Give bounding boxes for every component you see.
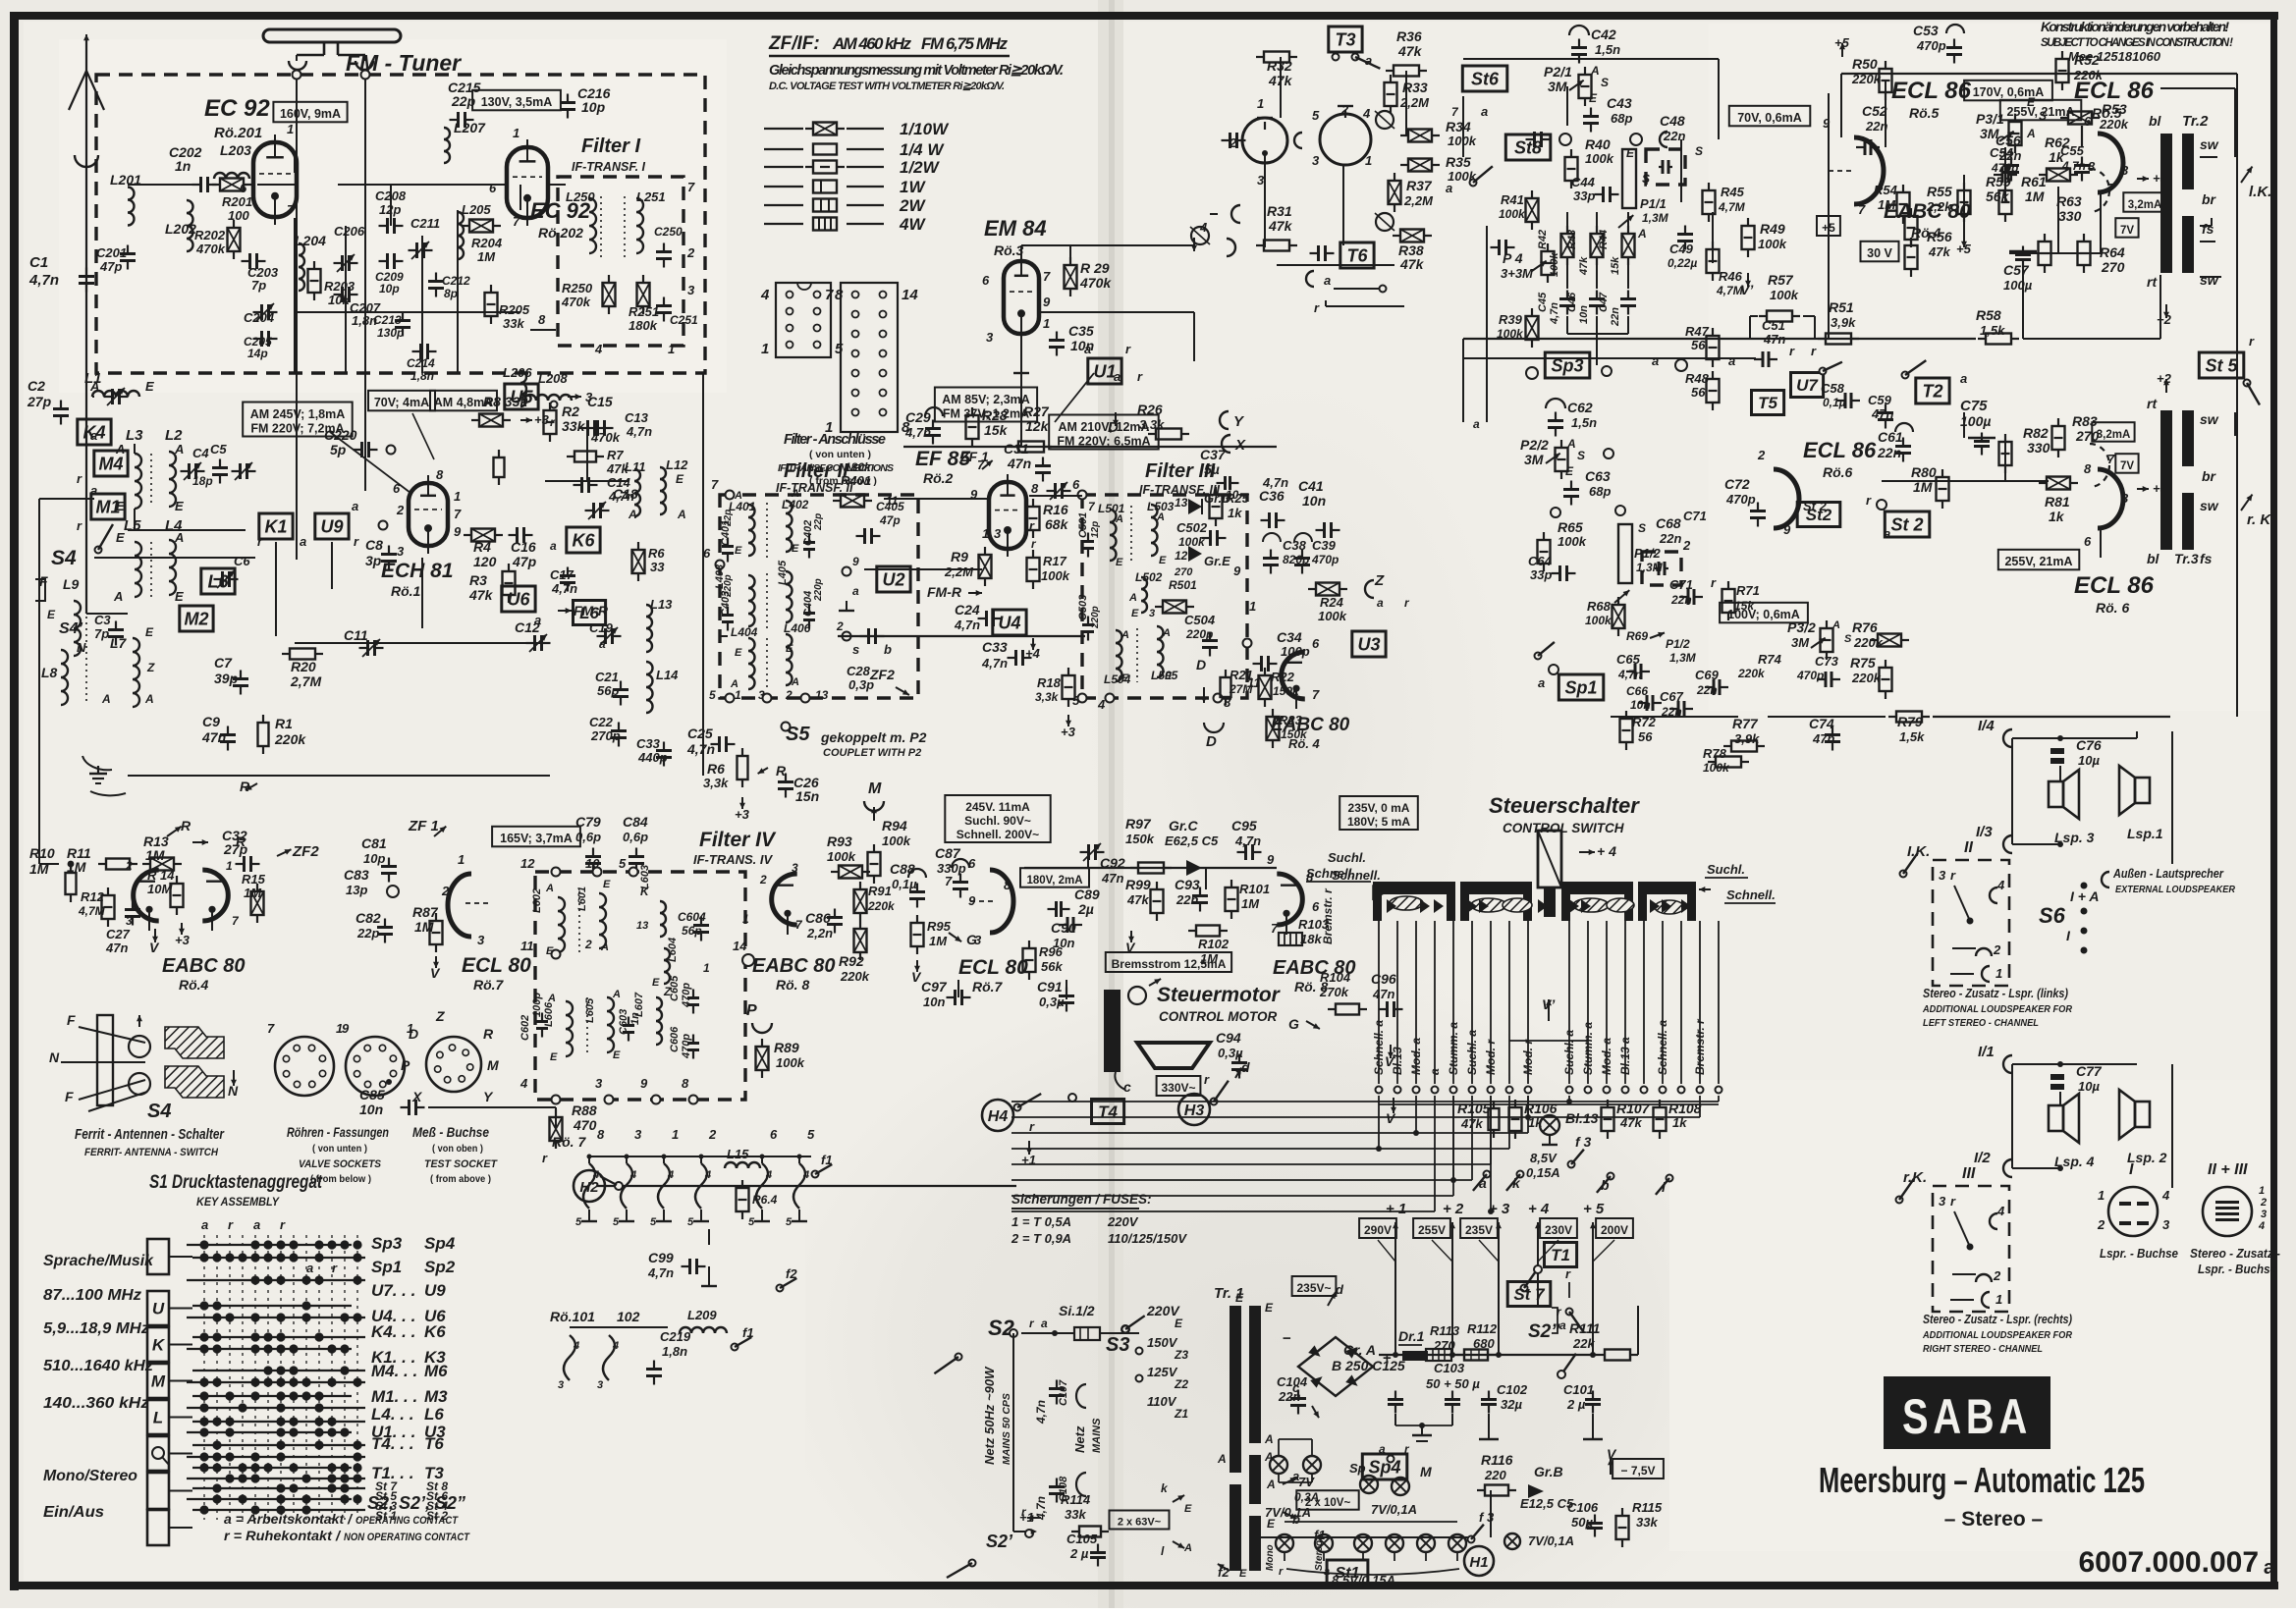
svg-text:a: a bbox=[90, 428, 97, 443]
svg-text:C12: C12 bbox=[515, 619, 540, 635]
svg-text:C107: C107 bbox=[1058, 1379, 1069, 1406]
svg-text:R88: R88 bbox=[572, 1102, 597, 1118]
svg-text:L14: L14 bbox=[656, 668, 679, 682]
svg-text:C73: C73 bbox=[1815, 654, 1839, 669]
svg-text:C52: C52 bbox=[1862, 103, 1887, 119]
svg-text:1,8n: 1,8n bbox=[662, 1344, 687, 1359]
svg-text:Sp4: Sp4 bbox=[424, 1234, 456, 1253]
svg-text:R103: R103 bbox=[1298, 917, 1330, 932]
svg-text:3: 3 bbox=[477, 933, 485, 947]
svg-text:Rö.202: Rö.202 bbox=[538, 225, 583, 241]
svg-text:T1: T1 bbox=[1551, 1246, 1570, 1264]
svg-text:R92: R92 bbox=[839, 953, 864, 969]
svg-text:E: E bbox=[47, 608, 56, 621]
svg-text:a: a bbox=[1379, 1442, 1386, 1456]
svg-text:L: L bbox=[153, 1409, 163, 1427]
svg-text:8p: 8p bbox=[444, 287, 458, 300]
svg-text:St 2: St 2 bbox=[1890, 515, 1923, 535]
svg-text:4,7n: 4,7n bbox=[647, 1265, 674, 1280]
svg-text:Si.1/2: Si.1/2 bbox=[1059, 1303, 1095, 1318]
svg-text:C69: C69 bbox=[1695, 668, 1720, 682]
svg-text:A: A bbox=[1637, 227, 1647, 241]
svg-text:1,3M: 1,3M bbox=[1642, 211, 1669, 225]
svg-text:Rö.3: Rö.3 bbox=[994, 242, 1024, 258]
svg-text:12: 12 bbox=[520, 856, 535, 871]
svg-text:7V/0,1A: 7V/0,1A bbox=[1265, 1505, 1311, 1520]
svg-text:235V~: 235V~ bbox=[1296, 1281, 1331, 1295]
svg-text:M: M bbox=[868, 780, 882, 797]
svg-text:R102: R102 bbox=[1198, 937, 1230, 951]
svg-text:8: 8 bbox=[538, 312, 546, 327]
svg-text:M4. . .: M4. . . bbox=[371, 1362, 417, 1380]
svg-text:R202: R202 bbox=[194, 228, 226, 242]
svg-text:L4. . .: L4. . . bbox=[371, 1405, 413, 1424]
svg-text:7: 7 bbox=[1043, 269, 1051, 284]
svg-text:100k: 100k bbox=[1770, 288, 1799, 302]
svg-text:+3: +3 bbox=[534, 412, 550, 427]
svg-text:a: a bbox=[1481, 104, 1488, 119]
svg-text:+: + bbox=[1383, 1350, 1392, 1367]
svg-text:2: 2 bbox=[708, 1127, 717, 1142]
svg-text:8,5V/0,15A: 8,5V/0,15A bbox=[1332, 1573, 1395, 1587]
svg-text:1n: 1n bbox=[175, 158, 191, 174]
svg-text:510...1640 kHz: 510...1640 kHz bbox=[43, 1358, 153, 1374]
svg-text:E: E bbox=[116, 499, 125, 513]
svg-text:F: F bbox=[39, 573, 48, 589]
svg-text:A: A bbox=[89, 379, 99, 394]
svg-text:C25: C25 bbox=[687, 726, 713, 741]
svg-text:S: S bbox=[1844, 633, 1852, 645]
svg-text:C9: C9 bbox=[202, 714, 220, 729]
svg-text:22p: 22p bbox=[723, 510, 734, 527]
svg-text:255V, 21mA: 255V, 21mA bbox=[2006, 105, 2074, 119]
svg-text:C606: C606 bbox=[669, 1026, 681, 1052]
svg-text:E: E bbox=[175, 499, 184, 513]
svg-text:470: 470 bbox=[573, 1117, 597, 1133]
svg-text:9: 9 bbox=[852, 555, 859, 568]
svg-text:C99: C99 bbox=[648, 1250, 674, 1265]
svg-text:I/2: I/2 bbox=[1974, 1150, 1991, 1166]
svg-text:R49: R49 bbox=[1760, 221, 1785, 237]
svg-text:Rö.4: Rö.4 bbox=[179, 977, 209, 993]
svg-text:L405: L405 bbox=[777, 560, 789, 585]
svg-text:160V, 9mA: 160V, 9mA bbox=[280, 107, 341, 121]
svg-text:M: M bbox=[487, 1057, 499, 1073]
svg-text:270: 270 bbox=[2101, 259, 2125, 275]
svg-text:3: 3 bbox=[986, 330, 994, 345]
svg-text:5: 5 bbox=[650, 1216, 657, 1228]
svg-text:Lsp. 3: Lsp. 3 bbox=[2054, 830, 2095, 845]
svg-text:Meß - Buchse: Meß - Buchse bbox=[412, 1124, 489, 1140]
svg-text:70V, 0,6mA: 70V, 0,6mA bbox=[1737, 111, 1802, 125]
svg-text:4: 4 bbox=[594, 342, 603, 356]
svg-text:4: 4 bbox=[573, 1340, 579, 1352]
svg-text:ECL 86: ECL 86 bbox=[2074, 572, 2155, 599]
svg-text:4,7n: 4,7n bbox=[626, 424, 652, 439]
svg-text:St8: St8 bbox=[1514, 138, 1542, 158]
svg-text:0,6p: 0,6p bbox=[623, 830, 648, 844]
svg-text:MAINS: MAINS bbox=[1091, 1418, 1103, 1453]
svg-text:– Stereo –: – Stereo – bbox=[1944, 1508, 2044, 1531]
svg-text:R101: R101 bbox=[1239, 882, 1270, 896]
svg-text:a: a bbox=[852, 584, 859, 598]
svg-text:R43: R43 bbox=[1566, 230, 1578, 249]
svg-text:E: E bbox=[792, 543, 799, 555]
svg-text:St 7: St 7 bbox=[1513, 1285, 1546, 1304]
svg-text:K6: K6 bbox=[424, 1322, 446, 1341]
svg-text:Lsp.1: Lsp.1 bbox=[2127, 826, 2163, 841]
svg-text:AM 85V; 2,3mA: AM 85V; 2,3mA bbox=[942, 393, 1030, 406]
svg-text:33p: 33p bbox=[1573, 188, 1595, 203]
svg-text:3: 3 bbox=[974, 933, 982, 947]
svg-text:Sprache/Musik: Sprache/Musik bbox=[43, 1253, 154, 1269]
svg-text:K: K bbox=[152, 1336, 166, 1355]
svg-text:1M: 1M bbox=[477, 249, 496, 264]
svg-text:3,3k: 3,3k bbox=[703, 776, 729, 790]
svg-text:10n: 10n bbox=[1070, 338, 1094, 353]
svg-text:+ 4: + 4 bbox=[1597, 843, 1616, 859]
svg-text:R50: R50 bbox=[1852, 56, 1878, 72]
svg-text:FM 6,75 MHz: FM 6,75 MHz bbox=[921, 34, 1009, 53]
svg-text:4W: 4W bbox=[899, 215, 926, 234]
svg-text:A: A bbox=[1156, 511, 1165, 523]
svg-text:100k: 100k bbox=[1585, 614, 1613, 627]
svg-text:L5: L5 bbox=[124, 517, 141, 534]
svg-text:R205: R205 bbox=[499, 302, 530, 317]
svg-text:sw: sw bbox=[2200, 136, 2219, 152]
svg-text:T6: T6 bbox=[1346, 246, 1368, 266]
svg-text:L402: L402 bbox=[782, 498, 809, 511]
svg-text:U: U bbox=[152, 1300, 165, 1318]
svg-text:Mod. a: Mod. a bbox=[1600, 1038, 1613, 1075]
svg-text:a = Arbeitskontakt /: a = Arbeitskontakt / bbox=[224, 1511, 354, 1527]
svg-text:2,7M: 2,7M bbox=[290, 673, 321, 689]
svg-text:7: 7 bbox=[513, 214, 520, 229]
svg-text:3: 3 bbox=[2121, 491, 2129, 506]
svg-text:4: 4 bbox=[519, 1076, 528, 1091]
svg-text:3: 3 bbox=[2162, 1217, 2170, 1232]
svg-text:A: A bbox=[791, 488, 799, 500]
svg-text:Suchl.: Suchl. bbox=[1707, 862, 1745, 877]
svg-text:47p: 47p bbox=[879, 513, 901, 527]
svg-text:C213: C213 bbox=[373, 313, 402, 327]
svg-text:C102: C102 bbox=[1497, 1382, 1528, 1397]
svg-text:L605: L605 bbox=[584, 997, 596, 1023]
svg-text:R107: R107 bbox=[1616, 1101, 1651, 1116]
svg-text:R91: R91 bbox=[868, 884, 892, 898]
svg-text:Filter III: Filter III bbox=[1145, 460, 1216, 482]
svg-text:470p: 470p bbox=[1916, 38, 1946, 53]
svg-text:R115: R115 bbox=[1632, 1500, 1663, 1515]
svg-text:C63: C63 bbox=[1585, 468, 1611, 484]
svg-text:C201: C201 bbox=[96, 245, 127, 260]
svg-text:L13: L13 bbox=[650, 597, 673, 612]
svg-text:1: 1 bbox=[458, 852, 465, 867]
svg-text:130V, 3,5mA: 130V, 3,5mA bbox=[481, 95, 553, 109]
svg-text:S3: S3 bbox=[1106, 1334, 1129, 1356]
svg-text:1M: 1M bbox=[2025, 188, 2045, 204]
svg-text:100k: 100k bbox=[1549, 252, 1560, 277]
svg-text:ECL 80: ECL 80 bbox=[462, 954, 531, 977]
svg-text:Gleichspannungsmessung mit V: Gleichspannungsmessung mit Voltmeter Ri≧… bbox=[769, 63, 1064, 79]
svg-text:C84: C84 bbox=[623, 814, 648, 830]
svg-text:rt: rt bbox=[2147, 274, 2158, 290]
svg-text:470k: 470k bbox=[195, 242, 226, 256]
svg-text:R77: R77 bbox=[1732, 716, 1759, 731]
svg-text:22k: 22k bbox=[1572, 1336, 1595, 1351]
svg-text:47k: 47k bbox=[1460, 1116, 1483, 1131]
svg-text:bl: bl bbox=[2149, 113, 2162, 129]
svg-text:Mod. r: Mod. r bbox=[1484, 1039, 1498, 1075]
svg-text:47n: 47n bbox=[1101, 871, 1123, 886]
svg-text:D: D bbox=[1196, 657, 1206, 672]
svg-text:E: E bbox=[735, 545, 742, 557]
svg-text:L607: L607 bbox=[633, 992, 645, 1017]
svg-text:1: 1 bbox=[1257, 96, 1264, 111]
svg-text:C95: C95 bbox=[1231, 818, 1257, 833]
svg-text:C206: C206 bbox=[334, 224, 365, 239]
svg-text:R1: R1 bbox=[275, 716, 293, 731]
svg-text:R65: R65 bbox=[1558, 519, 1583, 535]
svg-text:Mod. a: Mod. a bbox=[1409, 1038, 1423, 1075]
svg-text:4: 4 bbox=[1996, 878, 2005, 892]
svg-text:a: a bbox=[599, 637, 606, 651]
svg-text:4,7n: 4,7n bbox=[1262, 475, 1288, 490]
svg-text:+2: +2 bbox=[2157, 371, 2172, 386]
svg-text:+3: +3 bbox=[735, 807, 750, 822]
svg-text:100k: 100k bbox=[1448, 134, 1477, 148]
svg-text:a: a bbox=[1446, 181, 1452, 195]
svg-text:+3: +3 bbox=[1061, 725, 1076, 739]
svg-text:Schnell. a: Schnell. a bbox=[1372, 1020, 1386, 1075]
svg-text:M6: M6 bbox=[424, 1362, 448, 1380]
svg-text:3M: 3M bbox=[1524, 452, 1544, 467]
svg-text:C71: C71 bbox=[1683, 509, 1707, 523]
svg-text:L6: L6 bbox=[424, 1405, 444, 1424]
svg-text:a: a bbox=[253, 1217, 260, 1232]
svg-text:R97: R97 bbox=[1125, 816, 1152, 832]
svg-text:150k: 150k bbox=[1125, 832, 1155, 846]
svg-text:56: 56 bbox=[1638, 729, 1653, 744]
svg-text:4: 4 bbox=[704, 1169, 711, 1181]
svg-text:5: 5 bbox=[687, 1216, 694, 1228]
svg-text:C1: C1 bbox=[29, 254, 48, 271]
svg-text:Bremstr. r: Bremstr. r bbox=[1321, 887, 1335, 944]
svg-text:C64: C64 bbox=[1528, 554, 1553, 568]
svg-text:C35: C35 bbox=[1068, 323, 1094, 339]
svg-text:+ 3: + 3 bbox=[1489, 1201, 1510, 1217]
svg-text:C214: C214 bbox=[407, 356, 435, 370]
svg-text:1k: 1k bbox=[1228, 506, 1242, 520]
svg-text:7: 7 bbox=[1858, 202, 1866, 217]
svg-text:3: 3 bbox=[1312, 153, 1320, 168]
svg-text:S2’: S2’ bbox=[986, 1532, 1013, 1551]
svg-text:Stereo - Zusatz -: Stereo - Zusatz - bbox=[2190, 1246, 2280, 1261]
svg-text:E: E bbox=[786, 643, 793, 655]
svg-text:Bremsstrom 12,5mA: Bremsstrom 12,5mA bbox=[1112, 957, 1227, 971]
svg-text:R3: R3 bbox=[469, 572, 487, 588]
svg-text:E: E bbox=[550, 1051, 558, 1063]
svg-text:L208: L208 bbox=[538, 371, 568, 386]
svg-text:( von unten ): ( von unten ) bbox=[809, 449, 871, 460]
svg-text:9: 9 bbox=[342, 1021, 350, 1036]
svg-text:L9: L9 bbox=[63, 576, 80, 592]
svg-text:E: E bbox=[175, 589, 184, 604]
svg-text:1k: 1k bbox=[2049, 149, 2065, 165]
svg-text:470p: 470p bbox=[1725, 492, 1756, 507]
svg-text:R46: R46 bbox=[1719, 269, 1743, 284]
svg-text:C602: C602 bbox=[519, 1015, 531, 1041]
svg-text:56: 56 bbox=[1691, 385, 1706, 400]
svg-text:22p: 22p bbox=[813, 513, 824, 531]
svg-text:L406: L406 bbox=[784, 621, 811, 635]
svg-text:r. K: r. K bbox=[2247, 511, 2271, 528]
svg-text:E: E bbox=[1235, 1291, 1244, 1305]
svg-text:8,5V: 8,5V bbox=[1530, 1151, 1558, 1165]
svg-text:A: A bbox=[174, 442, 184, 457]
svg-text:47k: 47k bbox=[1399, 256, 1425, 272]
svg-text:E: E bbox=[1265, 1301, 1274, 1315]
svg-text:C251: C251 bbox=[670, 313, 698, 327]
svg-text:A: A bbox=[144, 692, 154, 706]
svg-text:8: 8 bbox=[682, 1076, 689, 1091]
svg-text:R116: R116 bbox=[1481, 1452, 1513, 1468]
svg-text:Sicherungen / FUSES:: Sicherungen / FUSES: bbox=[1011, 1192, 1152, 1207]
svg-text:Schnell.: Schnell. bbox=[1726, 887, 1776, 902]
svg-text:C97: C97 bbox=[921, 979, 948, 995]
svg-text:0,1µ: 0,1µ bbox=[892, 877, 917, 891]
svg-text:P: P bbox=[401, 1057, 410, 1073]
svg-text:a: a bbox=[1114, 369, 1121, 384]
svg-text:R34: R34 bbox=[1446, 119, 1471, 134]
svg-text:R52: R52 bbox=[2074, 52, 2100, 68]
svg-text:C22: C22 bbox=[589, 715, 614, 729]
svg-text:U3: U3 bbox=[1357, 635, 1380, 655]
svg-text:A: A bbox=[1128, 592, 1137, 604]
svg-text:ADDITIONAL LOUDSPEAKER FOR: ADDITIONAL LOUDSPEAKER FOR bbox=[1922, 1329, 2072, 1341]
svg-text:220k: 220k bbox=[274, 731, 306, 747]
svg-text:14: 14 bbox=[902, 287, 918, 303]
svg-text:33p: 33p bbox=[1530, 567, 1552, 582]
svg-text:2: 2 bbox=[785, 688, 793, 702]
svg-text:St2: St2 bbox=[1806, 506, 1832, 524]
svg-text:R6.4: R6.4 bbox=[752, 1193, 778, 1207]
svg-text:5,9...18,9 MHz: 5,9...18,9 MHz bbox=[43, 1320, 149, 1337]
svg-text:Rö.2: Rö.2 bbox=[923, 470, 954, 486]
svg-text:Steuerschalter: Steuerschalter bbox=[1489, 793, 1640, 818]
svg-text:ECL 80: ECL 80 bbox=[958, 956, 1028, 979]
svg-text:3p: 3p bbox=[365, 553, 382, 568]
svg-text:E: E bbox=[1165, 671, 1173, 682]
svg-text:1: 1 bbox=[226, 859, 233, 873]
svg-text:Z: Z bbox=[146, 661, 155, 674]
svg-text:A: A bbox=[1121, 629, 1129, 641]
svg-text:a: a bbox=[1324, 273, 1331, 288]
svg-text:0,22µ: 0,22µ bbox=[1667, 256, 1697, 270]
svg-text:5: 5 bbox=[575, 1216, 582, 1228]
svg-text:+5: +5 bbox=[1834, 35, 1850, 50]
svg-text:a: a bbox=[1884, 526, 1890, 541]
svg-text:E: E bbox=[652, 977, 660, 989]
svg-text:R31: R31 bbox=[1267, 203, 1292, 219]
svg-text:R203: R203 bbox=[324, 279, 355, 294]
svg-text:12: 12 bbox=[1175, 549, 1188, 563]
svg-text:Tr.3: Tr.3 bbox=[2174, 551, 2199, 566]
svg-text:47p: 47p bbox=[512, 554, 537, 569]
svg-text:1: 1 bbox=[287, 122, 294, 136]
svg-text:R18: R18 bbox=[1037, 675, 1062, 690]
svg-text:13: 13 bbox=[1175, 496, 1188, 510]
svg-text:A: A bbox=[545, 883, 554, 894]
svg-text:1: 1 bbox=[1365, 153, 1372, 168]
svg-text:R42: R42 bbox=[1537, 230, 1549, 249]
svg-text:2,2k: 2,2k bbox=[1926, 199, 1952, 214]
svg-text:a: a bbox=[1728, 353, 1735, 368]
svg-text:1: 1 bbox=[513, 126, 519, 140]
svg-text:2: 2 bbox=[125, 859, 133, 873]
svg-text:6: 6 bbox=[1312, 636, 1320, 651]
svg-text:1: 1 bbox=[1995, 966, 2002, 981]
svg-text:255V: 255V bbox=[1418, 1223, 1446, 1237]
svg-text:br: br bbox=[2202, 191, 2217, 207]
svg-text:a: a bbox=[1365, 53, 1372, 68]
svg-text:3: 3 bbox=[1939, 868, 1946, 883]
svg-text:5: 5 bbox=[709, 688, 716, 702]
svg-text:3,3k: 3,3k bbox=[1035, 690, 1060, 704]
svg-text:a: a bbox=[306, 1261, 313, 1275]
svg-text:22n: 22n bbox=[1659, 531, 1681, 546]
svg-text:220k: 220k bbox=[867, 899, 896, 913]
svg-text:270: 270 bbox=[1174, 566, 1193, 578]
svg-text:T4. . .: T4. . . bbox=[371, 1434, 413, 1453]
svg-text:230V: 230V bbox=[1545, 1223, 1572, 1237]
svg-text:C85: C85 bbox=[359, 1087, 385, 1102]
svg-text:U7. . .: U7. . . bbox=[371, 1281, 415, 1300]
svg-text:Netz 50Hz ~90W: Netz 50Hz ~90W bbox=[982, 1366, 997, 1465]
svg-text:220k: 220k bbox=[1737, 667, 1766, 680]
svg-text:St6: St6 bbox=[1471, 70, 1500, 89]
svg-text:1: 1 bbox=[735, 688, 741, 702]
svg-text:AM 210V; 12mA: AM 210V; 12mA bbox=[1058, 420, 1149, 434]
svg-text:C219: C219 bbox=[660, 1329, 691, 1344]
svg-text:120: 120 bbox=[473, 554, 497, 569]
svg-text:27p: 27p bbox=[223, 841, 248, 857]
svg-text:47k: 47k bbox=[468, 587, 494, 603]
svg-text:C53: C53 bbox=[1913, 23, 1939, 38]
svg-text:Rö.101: Rö.101 bbox=[550, 1309, 595, 1324]
svg-text:R81: R81 bbox=[2045, 494, 2070, 510]
svg-text:10µ: 10µ bbox=[2078, 753, 2100, 768]
svg-text:100k: 100k bbox=[1558, 534, 1587, 549]
svg-text:C13: C13 bbox=[625, 410, 649, 425]
svg-text:R7: R7 bbox=[607, 448, 624, 462]
svg-text:3: 3 bbox=[2261, 1209, 2267, 1220]
svg-text:U9: U9 bbox=[320, 517, 343, 537]
svg-text:C82: C82 bbox=[355, 910, 381, 926]
svg-text:A: A bbox=[628, 508, 637, 521]
svg-text:4,7n: 4,7n bbox=[1549, 302, 1560, 325]
svg-text:R59: R59 bbox=[1986, 174, 2011, 189]
svg-text:Bremstr. r: Bremstr. r bbox=[1693, 1018, 1707, 1075]
svg-text:AM 245V; 1,8mA: AM 245V; 1,8mA bbox=[250, 407, 346, 421]
svg-text:8: 8 bbox=[436, 467, 444, 482]
svg-text:C94: C94 bbox=[1216, 1030, 1241, 1046]
svg-text:Filter II: Filter II bbox=[784, 460, 848, 482]
svg-text:5: 5 bbox=[1312, 108, 1320, 123]
svg-text:+ 1: + 1 bbox=[1386, 1201, 1406, 1217]
svg-text:3: 3 bbox=[595, 1076, 603, 1091]
svg-text:b: b bbox=[884, 642, 892, 657]
